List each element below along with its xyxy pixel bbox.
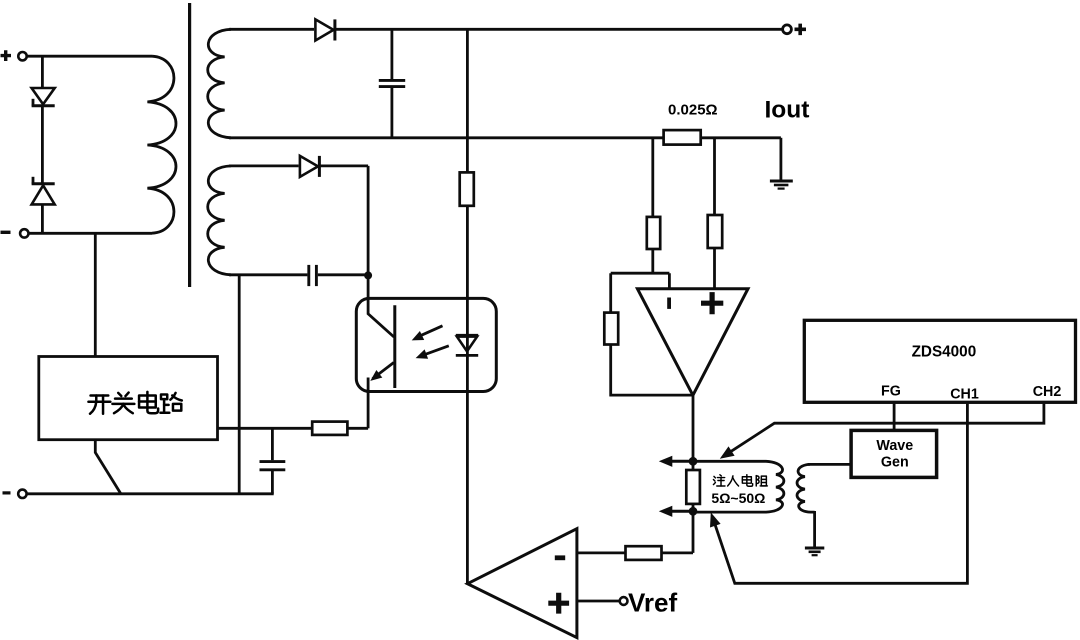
terminal + (input positive) label [1, 50, 12, 61]
wire between diodes [41, 107, 44, 183]
resistor R6 injection [686, 470, 700, 504]
label lu (circuit) [160, 393, 181, 413]
wire diode branch upper [41, 56, 44, 88]
transformer T2 left winding loop [695, 461, 784, 512]
wire CH1 probe [713, 404, 967, 584]
svg-text:Wave: Wave [876, 438, 913, 454]
transformer T1 primary winding [147, 56, 176, 233]
svg-text:Vref: Vref [628, 588, 677, 618]
resistor R4 [708, 215, 723, 248]
switching circuit box [39, 357, 218, 440]
label guan (close) [112, 393, 134, 414]
wire cap C2 lower stub [271, 471, 274, 494]
wire winding tap down [238, 275, 241, 494]
terminal + (input positive) circle [18, 52, 26, 60]
label kai (switch) [88, 396, 110, 414]
wire to sense ground [780, 138, 783, 180]
wire feedback loop [609, 273, 693, 396]
resistor 0.025ohm [664, 130, 701, 145]
diode D3 [315, 19, 333, 40]
diode D1 (zener) [32, 88, 55, 104]
wire U1 output [692, 394, 695, 461]
transformer T1 core [188, 3, 191, 287]
resistor R2 [312, 422, 347, 435]
op-amp U1 (current sense) [637, 289, 748, 396]
wire top-left rail [27, 55, 152, 58]
ground (injection) [805, 547, 824, 550]
wire R7 to injection [661, 511, 693, 553]
wire secondary top rail left [229, 28, 314, 31]
wire opto collector [368, 275, 394, 337]
wire FG to wave gen [893, 404, 896, 431]
diode D4 [300, 156, 318, 177]
wire LED column [466, 29, 469, 583]
wire diode branch lower [41, 204, 44, 233]
wire lower secondary top rail [229, 164, 299, 167]
resistor R5 feedback [604, 313, 618, 345]
wire U2 non-inverting input [577, 600, 620, 603]
wire to switching box [94, 233, 97, 357]
op-amp U1 minus mark [667, 298, 671, 309]
svg-text:ZDS4000: ZDS4000 [912, 343, 977, 360]
op-amp U2 plus mark [548, 593, 569, 614]
svg-text:CH1: CH1 [950, 386, 979, 402]
capacitor C3 [307, 265, 310, 286]
label zu (resistor) [756, 476, 767, 486]
wire lower rail to drop [319, 166, 368, 276]
wire CH2 probe [725, 404, 1044, 456]
wire bottom-left rail [29, 232, 152, 235]
wire injection resistor [692, 461, 695, 511]
terminal + (output positive) label [795, 24, 807, 35]
wire bottom rail [27, 492, 274, 495]
resistor R1 [460, 172, 474, 205]
ground (output return) [770, 180, 793, 183]
capacitor C1 [379, 79, 405, 82]
terminal + (output positive) circle [783, 25, 792, 34]
probe arrow top [670, 460, 693, 463]
wire T2 to ground [813, 511, 816, 547]
transformer T1 secondary lower winding [208, 166, 231, 275]
terminal - (switch rail) label [3, 491, 11, 494]
svg-text:Gen: Gen [881, 454, 909, 470]
wire inverting jog [611, 273, 670, 288]
resistor R7 [626, 546, 662, 560]
wire cap C2 upper stub [271, 428, 274, 460]
wire sense left branch [651, 138, 654, 273]
probe arrow CH2 [720, 446, 735, 458]
capacitor C2 [260, 460, 286, 463]
label dian (electric) [139, 392, 158, 413]
label zhu (inject) [713, 475, 725, 486]
wire box to opto [218, 427, 369, 430]
svg-text:Iout: Iout [765, 96, 810, 123]
wire secondary top rail right [335, 28, 782, 31]
svg-text:5Ω~50Ω: 5Ω~50Ω [711, 490, 765, 506]
wire lower secondary bottom rail [229, 273, 368, 276]
switch S1 [95, 440, 120, 494]
terminal - (switch rail) circle [18, 490, 26, 498]
opto transistor base bar [393, 305, 396, 388]
opto transistor emitter [373, 363, 394, 379]
probe arrow CH1 [710, 512, 721, 527]
terminal - (input negative) label [1, 231, 11, 234]
svg-text:CH2: CH2 [1033, 384, 1062, 400]
wire U2 inverting input [577, 552, 626, 555]
op-amp U2 minus mark [555, 555, 565, 560]
node injection bottom dot [689, 507, 698, 516]
op-amp U1 plus mark [701, 292, 723, 314]
node injection top dot [689, 457, 698, 466]
wire filter cap branch upper [390, 29, 393, 79]
label dian2 (electric) [742, 475, 752, 487]
instrument Wave Gen box [851, 430, 937, 477]
terminal Vref circle [620, 597, 628, 605]
svg-text:0.025Ω: 0.025Ω [668, 102, 718, 119]
terminal - (input negative) circle [20, 229, 28, 237]
label ru (into) [728, 476, 739, 486]
op-amp U2 (error amp) [468, 529, 577, 638]
opto light arrow upper [419, 326, 443, 337]
wire opto emitter down [367, 378, 370, 429]
optocoupler U3 box [356, 298, 496, 391]
wire filter cap branch lower [390, 88, 393, 138]
transformer T1 secondary top winding [208, 29, 231, 138]
diode D2 (zener) [32, 182, 55, 185]
resistor R3 [647, 217, 660, 249]
wire sense right branch [713, 138, 716, 288]
svg-text:FG: FG [881, 384, 901, 400]
opto light arrow lower [423, 346, 449, 355]
node opto feed dot [364, 271, 372, 279]
probe arrow bottom [670, 510, 693, 513]
opto LED [456, 334, 478, 337]
wire T2 to wave gen [808, 463, 851, 466]
transformer T2 right winding [797, 464, 815, 512]
wire secondary output rail [229, 136, 781, 139]
instrument ZDS4000 box [804, 320, 1075, 402]
